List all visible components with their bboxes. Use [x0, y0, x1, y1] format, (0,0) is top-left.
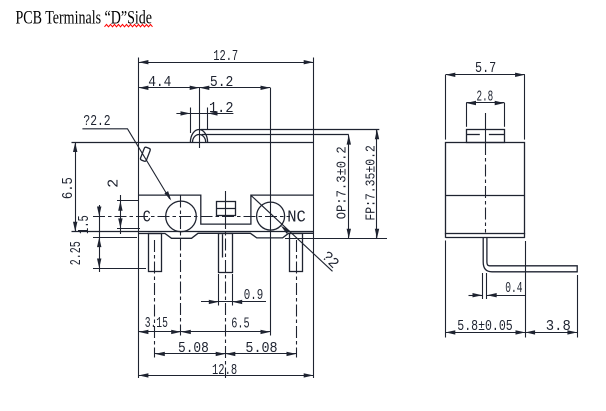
svg-text:?2.2: ?2.2 [83, 113, 110, 130]
svg-text:2: 2 [106, 179, 123, 188]
svg-text:12.7: 12.7 [213, 48, 238, 65]
svg-text:3.15: 3.15 [145, 315, 168, 332]
svg-text:5.7: 5.7 [475, 60, 496, 77]
svg-text:6.5: 6.5 [231, 316, 249, 333]
svg-text:5.2: 5.2 [210, 74, 234, 91]
svg-text:C: C [143, 208, 151, 227]
svg-text:1.2: 1.2 [209, 100, 234, 117]
svg-text:FP:7.35±0.2: FP:7.35±0.2 [365, 145, 380, 221]
svg-text:1.5: 1.5 [76, 215, 93, 234]
svg-text:0.4: 0.4 [505, 280, 522, 297]
svg-text:6.5: 6.5 [60, 177, 77, 199]
svg-text:4.4: 4.4 [148, 74, 171, 91]
svg-text:12.8: 12.8 [212, 362, 237, 379]
svg-text:0.9: 0.9 [244, 287, 263, 304]
svg-text:2.8: 2.8 [477, 89, 494, 106]
svg-text:5.8±0.05: 5.8±0.05 [457, 318, 512, 335]
svg-text:5.08: 5.08 [245, 340, 277, 357]
svg-text:2.25: 2.25 [68, 241, 85, 265]
svg-text:OP:7.3±0.2: OP:7.3±0.2 [336, 146, 351, 219]
svg-text:5.08: 5.08 [178, 340, 209, 357]
svg-text:NC: NC [287, 209, 306, 228]
svg-text:3.8: 3.8 [546, 318, 571, 335]
